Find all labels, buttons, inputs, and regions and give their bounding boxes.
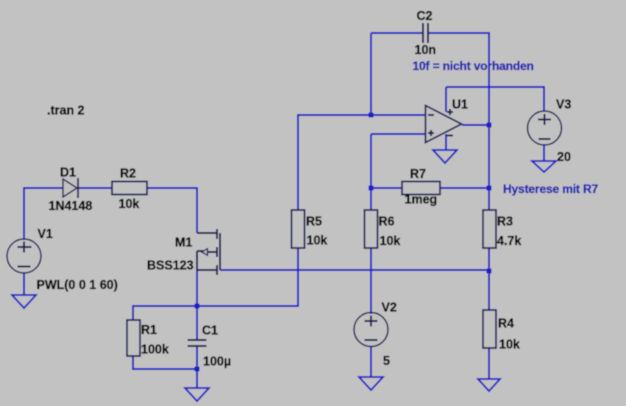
ground below U1: [433, 150, 457, 163]
wire: [370, 347, 372, 377]
svg-text:R3: R3: [497, 215, 513, 229]
svg-text:10k: 10k: [307, 234, 328, 248]
wire: [371, 32, 423, 34]
node R7-left junction: [369, 186, 374, 191]
svg-text:V3: V3: [556, 98, 571, 112]
wire: [488, 248, 490, 310]
wire: [24, 188, 63, 240]
wire: [196, 347, 198, 369]
svg-text:Hysterese mit R7: Hysterese mit R7: [503, 182, 598, 196]
ground below R4: [478, 379, 500, 391]
node R1-C1-ground junction: [195, 367, 200, 372]
svg-text:R2: R2: [120, 167, 136, 181]
resistor R2: [112, 182, 147, 195]
wire: [196, 270, 198, 306]
wire: [543, 144, 545, 161]
svg-text:20: 20: [557, 150, 571, 164]
svg-text:V1: V1: [38, 227, 53, 241]
diode D1: [63, 178, 78, 198]
svg-text:D1: D1: [60, 166, 76, 180]
svg-text:1meg: 1meg: [405, 193, 438, 207]
svg-text:10k: 10k: [119, 197, 140, 211]
svg-text:PWL(0 0 1 60): PWL(0 0 1 60): [37, 278, 118, 292]
svg-text:V2: V2: [382, 301, 397, 315]
svg-text:.tran 2: .tran 2: [47, 104, 85, 118]
svg-text:100µ: 100µ: [203, 355, 231, 369]
ground below C1: [185, 388, 209, 401]
wire: [428, 33, 489, 210]
svg-text:R1: R1: [141, 323, 157, 337]
svg-text:R4: R4: [498, 317, 514, 331]
wire: [133, 248, 298, 320]
ground below V1: [12, 295, 36, 308]
capacitor C2: [423, 23, 428, 43]
svg-text:C2: C2: [417, 9, 433, 23]
svg-text:5: 5: [383, 354, 390, 368]
wire: [462, 124, 489, 126]
resistor R7: [402, 182, 440, 195]
svg-text:10f = nicht vorhanden: 10f = nicht vorhanden: [413, 59, 534, 73]
wire: [445, 134, 447, 150]
svg-text:R6: R6: [379, 215, 395, 229]
wire: [196, 369, 198, 388]
wire: [370, 248, 372, 314]
node gate-RC junction: [195, 304, 200, 309]
svg-text:100k: 100k: [141, 343, 169, 357]
wire: [440, 187, 489, 189]
node R3-R4 junction: [487, 269, 492, 274]
wire: [370, 134, 372, 210]
svg-text:C1: C1: [202, 324, 218, 338]
svg-text:10k: 10k: [380, 234, 401, 248]
resistor R4: [483, 310, 496, 348]
node output junction: [487, 123, 492, 128]
ground below V3: [532, 161, 556, 172]
svg-text:R7: R7: [410, 167, 426, 181]
node R7-right junction: [487, 186, 492, 191]
resistor R6: [365, 210, 378, 248]
wire: [23, 273, 25, 295]
svg-text:M1: M1: [175, 236, 192, 250]
resistor R5: [292, 210, 305, 248]
ground below V2: [359, 377, 383, 390]
wire: [446, 87, 544, 111]
svg-text:BSS123: BSS123: [147, 259, 194, 273]
wire: [371, 187, 402, 189]
wire: [133, 356, 197, 369]
voltage source V2: [354, 313, 388, 347]
wire: [488, 348, 490, 379]
node minus-input junction: [369, 113, 374, 118]
wire: [220, 269, 489, 271]
svg-text:R5: R5: [306, 215, 322, 229]
wire: [298, 115, 425, 210]
wire: [445, 87, 447, 112]
voltage source V3: [528, 111, 562, 145]
wire: [196, 306, 198, 340]
wire: [147, 188, 197, 233]
capacitor C1: [188, 340, 207, 346]
svg-text:10k: 10k: [499, 338, 520, 352]
svg-text:U1: U1: [452, 98, 468, 112]
transistor M1: [197, 229, 220, 275]
wire: [78, 187, 112, 189]
op-amp U1: [426, 106, 462, 143]
resistor R1: [127, 320, 140, 356]
svg-text:10n: 10n: [415, 43, 437, 57]
wire: [371, 133, 425, 135]
resistor R3: [483, 210, 496, 248]
wire: [370, 33, 372, 115]
svg-text:4.7k: 4.7k: [497, 234, 521, 248]
voltage source V1: [7, 239, 41, 273]
svg-text:1N4148: 1N4148: [49, 199, 93, 213]
